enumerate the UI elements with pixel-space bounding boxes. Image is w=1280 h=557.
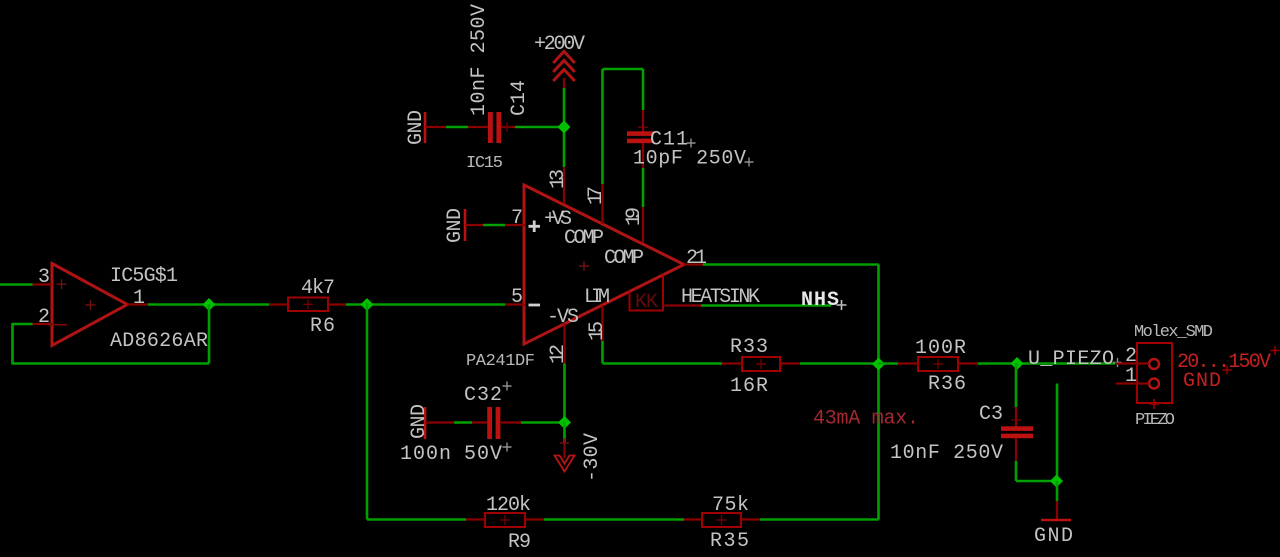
svg-text:GND: GND	[405, 110, 428, 145]
svg-text:10nF 250V: 10nF 250V	[468, 4, 491, 116]
10pF value origin cross	[745, 158, 754, 167]
svg-text:C3: C3	[979, 403, 1003, 426]
GND bottom bar	[1041, 519, 1071, 522]
svg-text:C14: C14	[508, 80, 531, 116]
svg-text:-VS: -VS	[547, 306, 579, 329]
wire +200V down to junction and pin 13	[563, 88, 566, 167]
wire pin 12 down to -30V node	[563, 364, 566, 423]
R35 right pin	[741, 518, 760, 520]
wire C3 to node G	[1016, 480, 1057, 483]
PA241 plus input symbol	[529, 221, 541, 233]
C14 GND red lead	[425, 126, 446, 128]
resistor R6 right pin	[328, 303, 346, 305]
svg-text:KK: KK	[635, 291, 658, 314]
wire R35 to output vertical	[760, 518, 879, 521]
capacitor C3 bottom bar	[1001, 434, 1033, 439]
capacitor C32 left bar	[487, 407, 492, 439]
C32 origin cross	[503, 382, 512, 391]
wire R36 to node F	[978, 362, 1115, 365]
capacitor C3 top bar	[1001, 426, 1033, 431]
C14 GND bar	[424, 112, 427, 143]
wire feedback to pin 2	[13, 323, 33, 326]
svg-text:10pF 250V: 10pF 250V	[633, 148, 746, 171]
wire heatsink net NHS	[701, 304, 831, 307]
svg-text:21: 21	[686, 247, 707, 270]
wire R6 to PA pin 5	[346, 303, 505, 306]
C32 right pin	[501, 421, 521, 423]
R9 right pin	[525, 518, 544, 520]
resistor R6 origin cross	[303, 299, 313, 309]
PA241 pin 12	[563, 324, 565, 364]
svg-text:C32: C32	[464, 384, 502, 407]
PA241 KK current-limit box	[630, 275, 664, 311]
wire node B to R9	[367, 518, 466, 521]
node B junction after R6	[361, 298, 374, 311]
PA241 minus input symbol	[529, 304, 541, 307]
C11 origin cross	[638, 126, 648, 128]
GND pin7 red lead	[465, 224, 483, 226]
svg-text:43mA max.: 43mA max.	[813, 408, 919, 431]
wire C32 to -30V node	[521, 421, 565, 424]
svg-text:-30V: -30V	[581, 433, 604, 482]
node D junction C32/-30V	[558, 416, 571, 429]
C11 origin cross	[687, 139, 696, 148]
wire node B down to R9	[366, 303, 369, 520]
wire node F down to C3	[1015, 364, 1018, 408]
svg-text:10nF 250V: 10nF 250V	[890, 442, 1003, 465]
resistor R6 left pin	[269, 303, 288, 305]
-30V origin cross	[560, 439, 569, 448]
wire node E to R36	[879, 362, 899, 365]
wire feedback bottom horizontal	[13, 362, 210, 365]
svg-text:IC5G$1: IC5G$1	[110, 265, 178, 288]
C32 GND red lead	[425, 421, 454, 423]
svg-text:100R: 100R	[915, 337, 966, 360]
wire feedback left vertical	[11, 323, 14, 365]
power amp U2 PA241DF triangle	[524, 185, 684, 344]
svg-text:16R: 16R	[730, 375, 768, 398]
svg-text:COMP: COMP	[604, 247, 644, 270]
svg-text:R9: R9	[508, 531, 531, 554]
R9 left pin	[466, 518, 485, 520]
svg-text:17: 17	[585, 186, 608, 205]
svg-text:PIEZO: PIEZO	[1135, 411, 1175, 430]
PA241 pin 19	[642, 207, 644, 243]
resistor R35 box	[702, 513, 741, 527]
C11 bottom pin	[642, 143, 644, 168]
capacitor C3 top pin	[1015, 407, 1017, 427]
wire pin 15 to R33	[603, 362, 723, 365]
R33 left pin	[722, 362, 742, 364]
GND bottom red lead	[1056, 501, 1058, 520]
svg-text:GND: GND	[408, 404, 431, 439]
connector X1 Molex_SMD box	[1137, 343, 1172, 403]
resistor R1 R6 box	[288, 298, 328, 312]
PA241 pin 17	[601, 184, 603, 224]
GND red origin cross	[1223, 366, 1232, 375]
20...150V origin cross	[1271, 346, 1280, 355]
svg-text:15: 15	[586, 321, 609, 341]
PA241 heatsink pin	[665, 304, 702, 306]
capacitor C11 bottom bar	[627, 139, 653, 144]
wire connector pin 1 down	[1056, 384, 1059, 482]
svg-text:50V: 50V	[464, 443, 502, 466]
C32 left pin	[472, 421, 487, 423]
C3 origin cross	[1011, 419, 1021, 421]
GND symbol at PA pin 7	[464, 209, 467, 241]
wire C11 to pin 19	[642, 168, 645, 207]
capacitor C32 right bar	[496, 407, 501, 439]
svg-text:COMP: COMP	[564, 227, 604, 250]
svg-text:4k7: 4k7	[301, 277, 335, 300]
svg-text:R33: R33	[730, 336, 768, 359]
PA241 pin 15	[601, 305, 603, 341]
wire C14 to +200V node	[515, 126, 564, 129]
capacitor C14 right bar	[496, 112, 501, 143]
svg-text:120k: 120k	[486, 494, 531, 517]
op-amp plus input marker	[57, 279, 67, 289]
wire R9 to R35	[544, 518, 684, 521]
wire C11 right vertical upper	[642, 69, 645, 110]
PA241 pin 13	[563, 167, 565, 204]
op-amp IC5 pin 1 output	[128, 303, 149, 305]
wire op-amp output to node A	[148, 303, 269, 306]
wire output vertical down	[877, 265, 880, 520]
svg-text:13: 13	[547, 169, 570, 189]
PA241 origin cross	[579, 261, 589, 271]
node F junction U_PIEZO/C3	[1011, 357, 1024, 370]
svg-text:+200V: +200V	[534, 33, 585, 56]
node C junction +200V/C14	[558, 121, 571, 134]
op-amp IC5 pin 3	[33, 283, 53, 285]
wire node D to -30V stub	[563, 423, 566, 443]
C32 GND bar	[424, 407, 427, 439]
wire pin 15 down	[601, 341, 604, 364]
R36 left pin	[898, 362, 918, 364]
connector pin 1 circle	[1149, 379, 1159, 389]
svg-text:Molex_SMD: Molex_SMD	[1134, 323, 1213, 342]
R9 origin cross	[500, 515, 510, 525]
svg-text:R36: R36	[928, 373, 966, 396]
PA241 pin 5	[505, 303, 525, 305]
svg-text:100n: 100n	[400, 443, 451, 466]
capacitor C14 left bar	[488, 112, 493, 143]
op-amp U1 IC5G$1 triangle	[52, 264, 128, 346]
svg-text:GND: GND	[1034, 525, 1073, 548]
supply +200V arrows	[553, 52, 575, 82]
svg-text:GND: GND	[444, 208, 467, 243]
wire pin 17 up	[601, 69, 604, 184]
-30V red stub	[563, 442, 565, 458]
op-amp IC5 pin 2	[33, 323, 53, 325]
resistor R33 box	[742, 357, 780, 371]
connector pin 1 lead	[1116, 382, 1149, 384]
C14 value origin cross	[502, 122, 512, 132]
C14 left pin	[468, 126, 488, 128]
R36 right pin	[958, 362, 978, 364]
svg-text:U_PIEZO: U_PIEZO	[1028, 348, 1114, 371]
U_PIEZO origin cross	[1113, 358, 1122, 367]
svg-text:NHS: NHS	[801, 289, 839, 312]
node E junction output/R33/R36	[872, 358, 885, 371]
resistor R36 box	[918, 357, 958, 371]
svg-text:5: 5	[511, 286, 523, 309]
svg-text:IC15: IC15	[466, 154, 503, 173]
PA241 pin 7	[505, 224, 525, 226]
wire GND bar to C14	[446, 126, 468, 129]
resistor R9 box	[485, 513, 525, 527]
wire feedback vertical from node A	[208, 305, 211, 364]
connector origin cross	[1149, 399, 1159, 409]
R35 left pin	[684, 518, 702, 520]
svg-text:2: 2	[38, 306, 50, 329]
R36 origin cross	[933, 359, 943, 369]
svg-text:PA241DF: PA241DF	[466, 352, 535, 371]
R33 origin cross	[756, 359, 766, 369]
wire pin 21 output	[703, 263, 879, 266]
wire GND to pin 7	[483, 224, 505, 227]
svg-text:7: 7	[511, 207, 523, 230]
connector pin 2 circle	[1149, 359, 1159, 369]
wire C11 top horizontal	[603, 68, 644, 71]
svg-text:R6: R6	[310, 315, 335, 338]
supply -30V arrow	[555, 456, 575, 472]
+200V red stub	[563, 78, 565, 88]
svg-text:3: 3	[38, 266, 50, 289]
svg-text:19: 19	[623, 207, 646, 226]
wire node G down	[1056, 481, 1059, 501]
capacitor C11 top bar	[627, 131, 653, 136]
svg-text:GND: GND	[1183, 370, 1221, 393]
C3 bottom pin	[1015, 438, 1017, 461]
R33 right pin	[780, 362, 800, 364]
op-amp minus input marker	[49, 324, 67, 326]
op-amp origin cross	[86, 300, 96, 310]
wire GND to C32	[454, 421, 472, 424]
capacitor C11 top pin	[642, 110, 644, 132]
svg-text:12: 12	[547, 344, 570, 364]
C14 right pin	[501, 126, 515, 128]
svg-text:1: 1	[133, 287, 145, 310]
connector pin 2 lead	[1115, 362, 1149, 364]
svg-text:LIM: LIM	[584, 286, 610, 309]
wire C3 down	[1015, 461, 1018, 481]
node A junction at output	[203, 298, 216, 311]
50V origin cross	[503, 443, 512, 452]
svg-text:75k: 75k	[712, 494, 749, 517]
R35 origin cross	[717, 515, 727, 525]
PA241 pin 21 output	[684, 263, 703, 265]
svg-text:R35: R35	[710, 530, 749, 553]
NHS origin cross	[837, 300, 847, 310]
node G junction C3/GND	[1050, 475, 1063, 488]
wire net IN to op-amp pin 3	[0, 283, 33, 286]
wire R33 to node E	[800, 362, 879, 365]
svg-text:AD8626AR: AD8626AR	[110, 330, 208, 353]
svg-text:1: 1	[1125, 365, 1137, 388]
